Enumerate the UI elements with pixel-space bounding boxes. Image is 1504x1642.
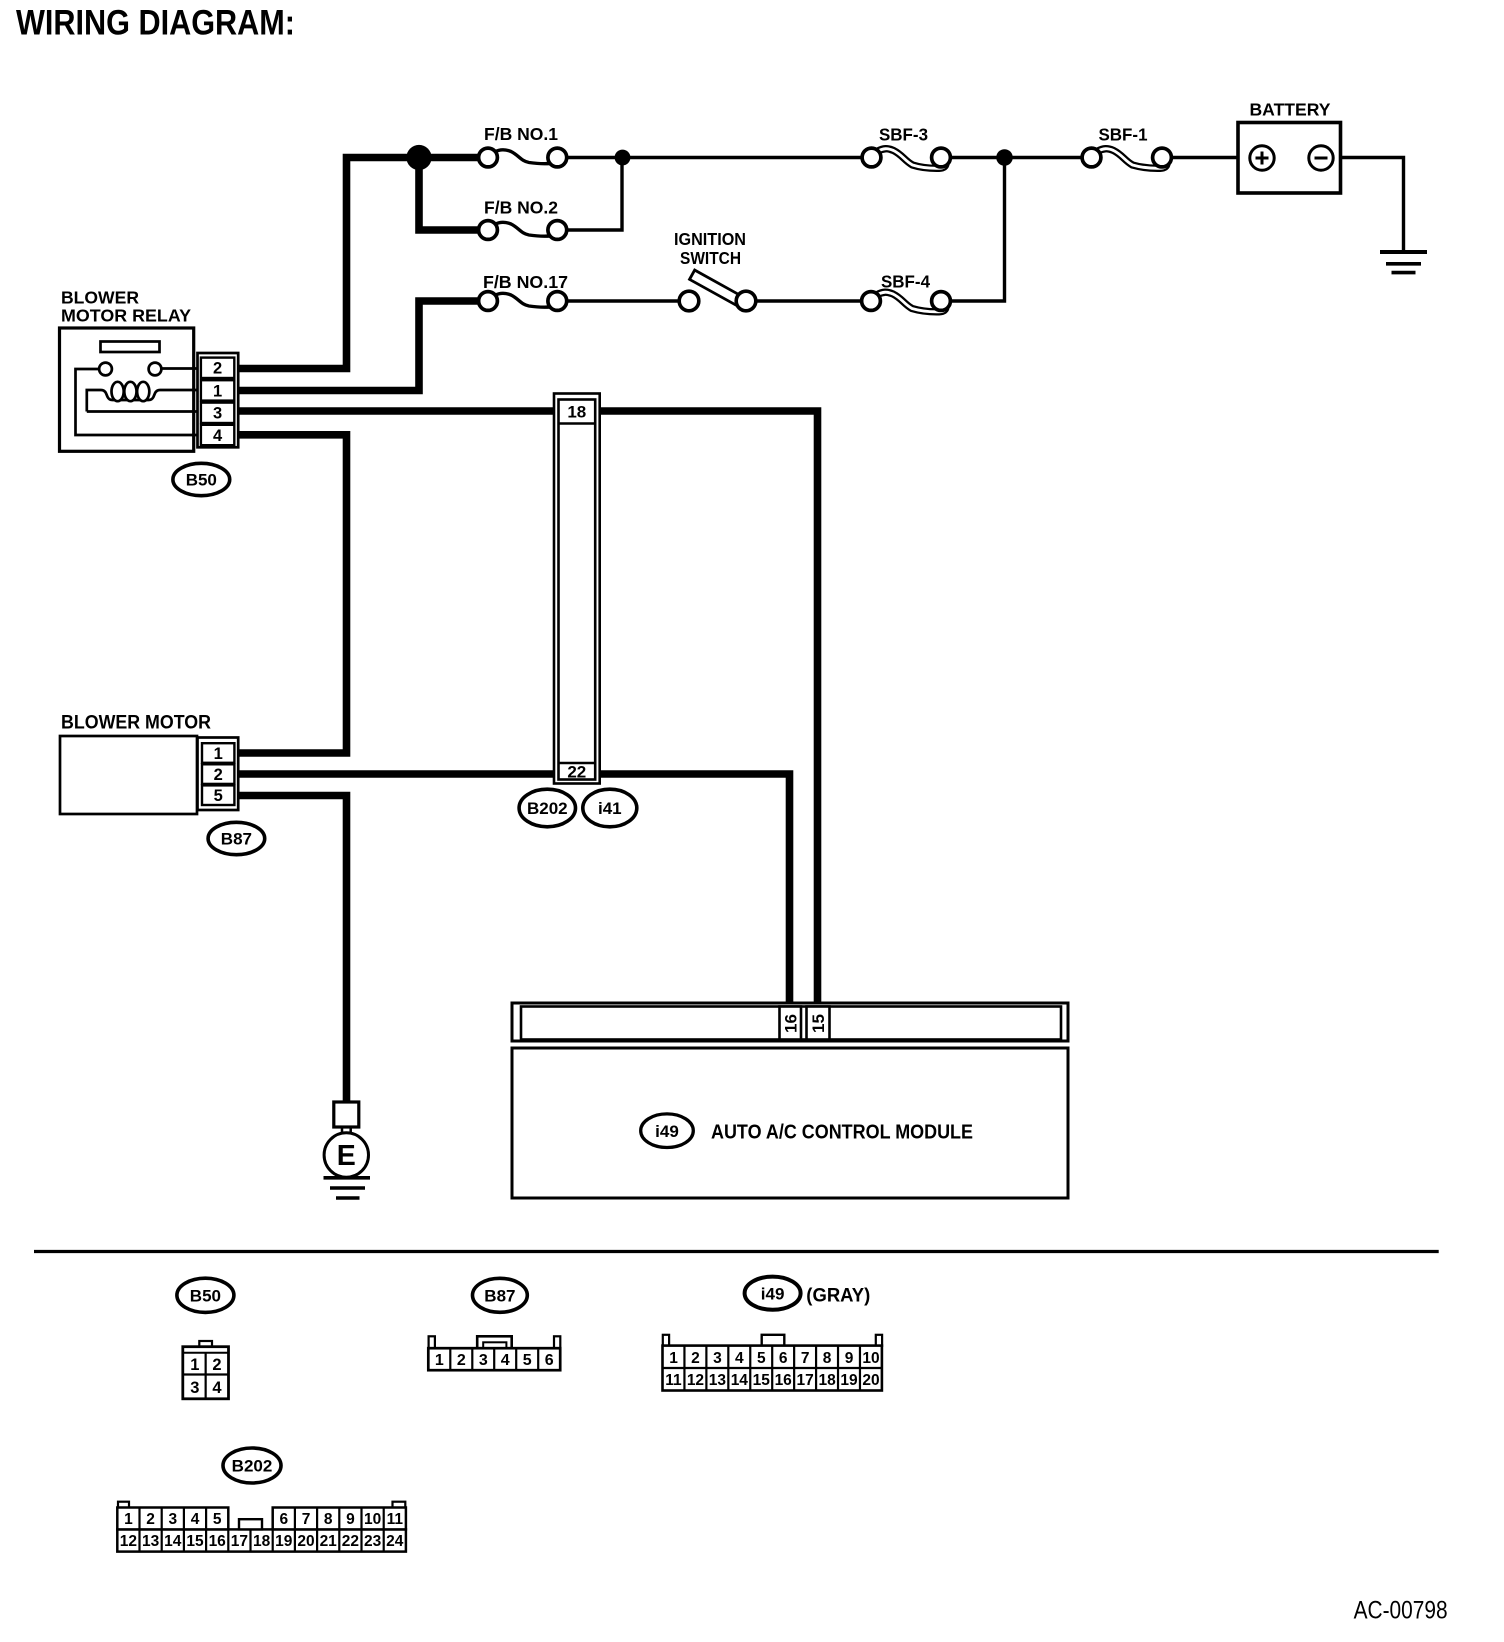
connector view i49 (2x10) — [663, 1335, 883, 1391]
svg-text:SWITCH: SWITCH — [680, 248, 741, 268]
svg-text:21: 21 — [320, 1533, 338, 1550]
svg-text:4: 4 — [212, 1379, 222, 1397]
svg-text:B87: B87 — [484, 1286, 515, 1305]
svg-text:B87: B87 — [221, 830, 252, 849]
svg-text:11: 11 — [387, 1511, 404, 1528]
ground: chassis ground at battery — [1380, 252, 1427, 273]
svg-text:15: 15 — [186, 1533, 204, 1550]
svg-text:BATTERY: BATTERY — [1250, 100, 1331, 120]
svg-text:9: 9 — [845, 1350, 854, 1367]
connector view label B87 — [473, 1278, 528, 1312]
svg-text:14: 14 — [731, 1372, 749, 1389]
svg-text:12: 12 — [687, 1372, 704, 1389]
svg-text:IGNITION: IGNITION — [674, 229, 746, 249]
ground E (body ground) — [324, 1102, 371, 1198]
wire: ignition switch to SBF-4 — [756, 299, 862, 302]
svg-text:22: 22 — [342, 1533, 359, 1550]
svg-text:10: 10 — [862, 1350, 879, 1367]
svg-text:18: 18 — [567, 403, 586, 422]
svg-text:4: 4 — [501, 1352, 510, 1369]
module pin 15 — [807, 1007, 830, 1040]
node: junction dot F/B NO.1 / F/B NO.2 — [615, 150, 631, 166]
svg-text:20: 20 — [862, 1372, 879, 1389]
wire: junction down to fuse F/B NO.2 — [419, 154, 479, 230]
blower motor B87 — [60, 713, 211, 815]
relay contact bar — [101, 342, 160, 353]
svg-text:3: 3 — [168, 1511, 177, 1528]
fuse SBF-3 — [862, 125, 950, 169]
pin 22 cell — [559, 762, 596, 765]
blower motor connector pins 1,2,5 — [198, 738, 239, 811]
svg-text:1: 1 — [124, 1511, 133, 1528]
wire: battery feed to relay pin 2 (junction to vertical riser x=346) — [238, 158, 419, 369]
svg-text:1: 1 — [190, 1356, 199, 1374]
wire: F/B NO.1 output to SBF-3 — [566, 156, 863, 159]
fuse F/B NO.1 — [479, 124, 567, 167]
wire: blower motor pin 5 to ground E — [238, 796, 347, 1104]
svg-text:AC-00798: AC-00798 — [1354, 1597, 1448, 1625]
svg-text:F/B NO.2: F/B NO.2 — [484, 198, 558, 218]
relay contacts — [99, 363, 112, 376]
module body — [512, 1048, 1068, 1198]
svg-text:5: 5 — [214, 787, 223, 805]
svg-text:4: 4 — [191, 1511, 200, 1528]
svg-text:1: 1 — [214, 745, 223, 763]
svg-text:22: 22 — [567, 763, 586, 782]
svg-text:3: 3 — [190, 1379, 199, 1397]
svg-text:(GRAY): (GRAY) — [806, 1285, 870, 1307]
svg-text:13: 13 — [709, 1372, 727, 1389]
svg-text:4: 4 — [735, 1350, 744, 1367]
svg-text:6: 6 — [279, 1511, 288, 1528]
svg-text:BLOWER MOTOR: BLOWER MOTOR — [61, 713, 211, 734]
svg-text:i41: i41 — [598, 799, 622, 818]
svg-text:5: 5 — [757, 1350, 766, 1367]
wire: F/B NO.17 output to ignition switch — [566, 299, 679, 302]
svg-text:B50: B50 — [186, 471, 217, 490]
svg-text:7: 7 — [302, 1511, 311, 1528]
svg-text:4: 4 — [213, 427, 223, 445]
wire: relay pin 4 to blower motor pin 1 — [238, 435, 347, 753]
wire: SBF-4 output up to junction at SBF-3 output — [951, 158, 1005, 302]
svg-text:16: 16 — [781, 1014, 800, 1033]
svg-text:B50: B50 — [190, 1286, 221, 1305]
module pin 16 — [780, 1007, 802, 1040]
svg-text:19: 19 — [840, 1372, 858, 1389]
svg-text:14: 14 — [164, 1533, 182, 1550]
switch: ignition switch — [674, 229, 756, 311]
fuse SBF-1 — [1082, 125, 1171, 169]
svg-text:23: 23 — [364, 1533, 382, 1550]
svg-text:MOTOR RELAY: MOTOR RELAY — [61, 306, 191, 326]
connector view label B202 — [223, 1448, 281, 1483]
relay: blower motor relay B50 — [60, 288, 201, 452]
svg-text:2: 2 — [691, 1350, 700, 1367]
separator line — [34, 1250, 1439, 1253]
svg-text:2: 2 — [457, 1352, 466, 1369]
connector view label i49 — [745, 1277, 801, 1310]
svg-text:15: 15 — [809, 1014, 828, 1033]
svg-text:WIRING DIAGRAM:: WIRING DIAGRAM: — [16, 3, 295, 43]
svg-text:B202: B202 — [527, 799, 568, 818]
connector label B87 — [208, 822, 265, 854]
svg-text:17: 17 — [231, 1533, 248, 1550]
connector label i41 — [583, 789, 637, 827]
wire: relay pin 3 to B202 pin 18 and A/C module pin 15 — [238, 411, 818, 1004]
svg-text:5: 5 — [213, 1511, 222, 1528]
svg-text:3: 3 — [479, 1352, 488, 1369]
svg-text:3: 3 — [213, 405, 222, 423]
connector view B87 (1-6) — [428, 1336, 560, 1370]
svg-text:SBF-3: SBF-3 — [879, 125, 928, 145]
svg-text:AUTO A/C CONTROL MODULE: AUTO A/C CONTROL MODULE — [711, 1122, 973, 1144]
svg-text:8: 8 — [324, 1511, 333, 1528]
connector B202 / i41 inline (pins 18, 22) — [554, 394, 600, 784]
svg-text:SBF-1: SBF-1 — [1099, 125, 1148, 145]
svg-text:13: 13 — [142, 1533, 160, 1550]
svg-text:1: 1 — [435, 1352, 444, 1369]
svg-text:24: 24 — [386, 1533, 404, 1550]
svg-text:B202: B202 — [232, 1457, 273, 1476]
svg-text:20: 20 — [297, 1533, 314, 1550]
wire: F/B NO.2 output up to node — [566, 158, 622, 231]
svg-text:19: 19 — [275, 1533, 293, 1550]
fuse SBF-4 — [862, 272, 951, 312]
connector label i49 — [641, 1114, 694, 1148]
svg-text:12: 12 — [120, 1533, 137, 1550]
svg-text:2: 2 — [214, 766, 223, 784]
connector view B50 (2x2) — [183, 1341, 229, 1399]
svg-text:6: 6 — [545, 1352, 554, 1369]
wire: SBF-1 output to battery positive — [1172, 156, 1251, 159]
svg-text:18: 18 — [253, 1533, 271, 1550]
svg-text:1: 1 — [669, 1350, 678, 1367]
wire: battery negative to chassis ground — [1332, 158, 1404, 252]
module: AUTO A/C CONTROL MODULE i49 — [512, 1003, 1068, 1198]
svg-text:10: 10 — [364, 1511, 381, 1528]
svg-text:SBF-4: SBF-4 — [881, 272, 930, 292]
svg-text:17: 17 — [797, 1372, 814, 1389]
wire: SBF-3 output to SBF-1 — [951, 156, 1082, 159]
connector view label B50 — [177, 1278, 234, 1312]
relay internal wiring — [76, 369, 201, 435]
svg-text:F/B NO.17: F/B NO.17 — [483, 272, 568, 292]
wire: relay pin 1 to fuse F/B NO.17 — [238, 301, 479, 391]
relay coil — [112, 382, 124, 401]
svg-text:6: 6 — [779, 1350, 788, 1367]
svg-text:2: 2 — [213, 360, 222, 378]
node: main junction dot at battery feed — [406, 145, 431, 170]
svg-text:2: 2 — [212, 1356, 221, 1374]
svg-text:11: 11 — [665, 1372, 682, 1389]
connector label B50 — [173, 463, 230, 495]
svg-text:16: 16 — [209, 1533, 227, 1550]
svg-text:8: 8 — [823, 1350, 832, 1367]
node: junction dot SBF-3 / SBF-4 — [996, 149, 1013, 166]
battery — [1238, 100, 1341, 194]
svg-text:F/B NO.1: F/B NO.1 — [484, 124, 558, 144]
pin 18 cell — [559, 422, 596, 425]
svg-text:5: 5 — [523, 1352, 532, 1369]
svg-text:16: 16 — [775, 1372, 793, 1389]
relay connector pins 2,1,3,4 — [198, 353, 239, 447]
svg-text:1: 1 — [213, 382, 222, 400]
svg-text:BLOWER: BLOWER — [61, 288, 139, 308]
fuse F/B NO.17 — [479, 272, 568, 310]
svg-text:2: 2 — [146, 1511, 155, 1528]
connector view B202 (24-pin) — [117, 1502, 406, 1552]
svg-text:E: E — [337, 1140, 356, 1172]
svg-text:i49: i49 — [761, 1284, 785, 1303]
svg-text:i49: i49 — [655, 1122, 679, 1141]
svg-text:15: 15 — [753, 1372, 771, 1389]
svg-text:3: 3 — [713, 1350, 722, 1367]
connector label B202 — [519, 789, 575, 827]
svg-text:18: 18 — [818, 1372, 836, 1389]
fuse F/B NO.2 — [479, 198, 567, 240]
svg-text:7: 7 — [801, 1350, 810, 1367]
wire: blower motor pin 2 through B202 pin 22 to A/C module pin 16 — [238, 774, 790, 1004]
wire: junction to fuse F/B NO.1 — [415, 154, 479, 162]
svg-text:9: 9 — [346, 1511, 355, 1528]
